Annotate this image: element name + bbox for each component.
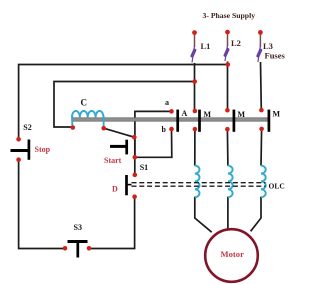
svg-text:L1: L1 bbox=[201, 41, 211, 51]
svg-text:C: C bbox=[81, 98, 88, 108]
svg-text:D: D bbox=[112, 185, 118, 194]
svg-text:M: M bbox=[238, 110, 246, 119]
svg-text:L3: L3 bbox=[263, 41, 273, 51]
svg-text:OLC: OLC bbox=[269, 182, 285, 191]
svg-text:A: A bbox=[182, 109, 188, 118]
svg-text:S1: S1 bbox=[140, 163, 148, 172]
svg-text:Motor: Motor bbox=[221, 249, 245, 259]
svg-text:3- Phase Supply: 3- Phase Supply bbox=[203, 11, 256, 20]
svg-text:S3: S3 bbox=[74, 223, 82, 232]
svg-text:M: M bbox=[273, 110, 281, 119]
svg-text:L2: L2 bbox=[231, 38, 241, 48]
svg-text:b: b bbox=[162, 125, 167, 134]
svg-text:Stop: Stop bbox=[35, 145, 51, 154]
svg-text:M: M bbox=[204, 110, 212, 119]
svg-text:S2: S2 bbox=[23, 123, 31, 132]
svg-text:Start: Start bbox=[104, 156, 122, 165]
svg-text:Fuses: Fuses bbox=[265, 51, 286, 61]
svg-text:a: a bbox=[165, 98, 169, 107]
